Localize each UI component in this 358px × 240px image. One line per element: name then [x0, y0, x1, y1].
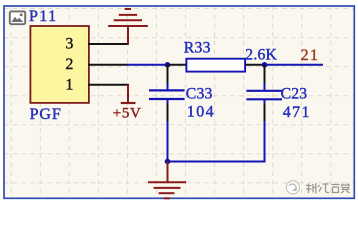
capacitor C23 [246, 91, 282, 100]
image placeholder icon [10, 11, 25, 24]
svg-text:+5V: +5V [113, 106, 142, 122]
watermark text [306, 183, 350, 194]
svg-text:2: 2 [65, 56, 74, 73]
resistor R33 left pin [168, 64, 187, 66]
watermark logo [286, 181, 299, 194]
svg-text:C23: C23 [281, 86, 308, 103]
svg-text:R33: R33 [184, 39, 211, 56]
svg-text:PGF: PGF [30, 106, 62, 123]
capacitor C33 [149, 90, 185, 99]
schematic sheet background [4, 6, 354, 198]
pin 3 wire [88, 43, 129, 45]
svg-text:471: 471 [283, 104, 311, 121]
resistor R33 right pin [245, 64, 264, 66]
connector P11 body [30, 26, 89, 103]
ground GND bottom [148, 162, 186, 199]
svg-text:21: 21 [301, 47, 320, 64]
wire pin2 to junction A [127, 64, 168, 66]
junction A [165, 62, 171, 68]
svg-text:104: 104 [187, 104, 215, 121]
capacitor C33 lower stem [167, 100, 169, 162]
junction B [262, 62, 268, 68]
capacitor C23 lower stem [264, 100, 266, 163]
wire bottom return [168, 161, 266, 163]
resistor R33 body [186, 59, 245, 72]
svg-text:P11: P11 [29, 8, 58, 25]
ground GND top [108, 9, 148, 45]
pin 2 wire [88, 64, 128, 66]
svg-text:3: 3 [65, 36, 74, 53]
svg-text:C33: C33 [186, 86, 213, 103]
junction C [165, 159, 171, 165]
wire net 21 [265, 64, 324, 66]
capacitor C33 upper stem [167, 65, 169, 90]
capacitor C23 upper stem [264, 65, 266, 90]
svg-text:1: 1 [65, 77, 74, 94]
pin 1 wire [88, 84, 129, 86]
svg-text:2.6K: 2.6K [245, 46, 277, 63]
power +5V [113, 85, 142, 122]
